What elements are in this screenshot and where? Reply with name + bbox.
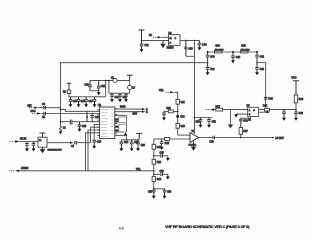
svg-text:R23: R23 bbox=[181, 126, 186, 128]
svg-text:9V: 9V bbox=[149, 35, 152, 37]
wire quad pin bbox=[115, 114, 127, 116]
IC left pin stubs bbox=[97, 110, 99, 136]
wire right rail bbox=[109, 92, 130, 94]
resistor R22 bbox=[168, 110, 173, 113]
ground bbox=[160, 147, 164, 150]
capacitor C11 middle leg bbox=[97, 80, 101, 92]
svg-text:AUDIO: AUDIO bbox=[21, 167, 28, 170]
wire IC bottom right bbox=[115, 135, 127, 140]
svg-text:C44: C44 bbox=[260, 69, 265, 71]
capacitor C26 bbox=[120, 140, 124, 148]
svg-text:C56: C56 bbox=[160, 153, 165, 155]
capacitor C16 bbox=[69, 97, 73, 104]
svg-text:R48: R48 bbox=[299, 99, 304, 101]
resistor R42 bbox=[241, 51, 249, 53]
net arrow bbox=[70, 142, 73, 144]
svg-text:C53: C53 bbox=[210, 142, 215, 144]
wire VCC rail top-right bbox=[208, 51, 257, 53]
svg-text:LM2904: LM2904 bbox=[189, 145, 197, 147]
svg-text:C42: C42 bbox=[236, 57, 241, 59]
net arrow bbox=[267, 111, 270, 113]
capacitor C57 bbox=[152, 189, 156, 196]
capacitor C15 bbox=[78, 122, 82, 129]
power flag VB bbox=[136, 134, 142, 140]
ground bbox=[140, 49, 144, 52]
wire plus to chain bbox=[154, 138, 165, 140]
ground bbox=[97, 92, 101, 95]
ground bbox=[199, 125, 203, 128]
svg-text:R22: R22 bbox=[167, 108, 172, 110]
resistor R47 bbox=[239, 128, 242, 135]
wire quad link bbox=[115, 115, 127, 132]
node bias tap bbox=[176, 115, 179, 118]
wire IF net out bbox=[115, 108, 142, 110]
power flag bbox=[40, 133, 46, 137]
power flag filter rail bbox=[67, 83, 71, 90]
ceramic filter FL1 bbox=[38, 137, 47, 147]
capacitor C22 bbox=[124, 93, 128, 99]
svg-text:DET: DET bbox=[133, 114, 138, 116]
svg-text:R42: R42 bbox=[242, 46, 247, 48]
IC right pin stubs bbox=[115, 109, 118, 133]
svg-text:R21: R21 bbox=[181, 102, 186, 104]
series capacitor C3 bbox=[75, 141, 77, 145]
capacitor C1 bbox=[25, 142, 29, 149]
capacitor C25 bbox=[92, 140, 96, 146]
pin element 3 bbox=[115, 126, 118, 128]
svg-text:R40: R40 bbox=[216, 46, 221, 48]
capacitor C33 bbox=[184, 40, 187, 56]
capacitor C34 bbox=[198, 40, 202, 47]
capacitor C18 bbox=[84, 97, 88, 104]
capacitor C51 bbox=[199, 118, 203, 125]
ground bbox=[234, 115, 238, 118]
node bbox=[185, 40, 186, 41]
crystal loop left leg capacitor C10 bbox=[88, 80, 92, 90]
inductor L6 bbox=[129, 80, 131, 93]
node bbox=[256, 62, 257, 63]
ground bbox=[93, 104, 97, 107]
svg-text:AF OUT: AF OUT bbox=[275, 137, 284, 140]
wire filter input bbox=[19, 141, 38, 143]
wire regulator output bbox=[180, 39, 199, 41]
inductor L5 bbox=[113, 78, 117, 82]
capacitor C2 bbox=[32, 142, 36, 149]
svg-text:C33: C33 bbox=[189, 48, 194, 50]
inductor L2 bbox=[60, 126, 62, 131]
svg-text:C18: C18 bbox=[81, 101, 86, 103]
capacitor C19 bbox=[93, 97, 97, 104]
wire IC pin routes down-left bbox=[94, 124, 99, 140]
capacitor C20 bbox=[110, 93, 114, 99]
regulator U2 78M05 bbox=[169, 35, 181, 46]
ground bbox=[294, 118, 298, 121]
pin element 1 bbox=[115, 118, 118, 120]
wire IC pin jog bbox=[61, 109, 100, 111]
node dot bbox=[141, 40, 142, 41]
power flag right bbox=[293, 81, 299, 95]
series capacitor C53 bbox=[213, 136, 215, 140]
net arrow bbox=[142, 111, 145, 113]
wire osc to rail bbox=[105, 80, 107, 96]
svg-text:C63: C63 bbox=[299, 113, 304, 115]
wire route to AF line 2 bbox=[86, 133, 100, 171]
wire route to AF line bbox=[88, 130, 100, 171]
resistor R21 bbox=[176, 99, 179, 104]
capacitor C45 bbox=[264, 98, 268, 100]
ground bbox=[124, 99, 128, 102]
ground bbox=[152, 196, 156, 199]
svg-text:C57: C57 bbox=[148, 192, 153, 194]
ground bbox=[92, 146, 96, 149]
capacitor C44 bbox=[255, 63, 259, 73]
svg-text:470 OHM: 470 OHM bbox=[215, 49, 224, 51]
wire dashed lead bbox=[10, 141, 15, 143]
wire cap row bbox=[121, 139, 139, 141]
net arrow left bbox=[15, 170, 19, 172]
ground under U2 input bbox=[161, 40, 165, 47]
svg-text:C10: C10 bbox=[85, 84, 90, 86]
IC U1 receiver bbox=[100, 107, 115, 139]
svg-text:C58: C58 bbox=[167, 192, 172, 194]
resistor R30 bbox=[152, 144, 155, 149]
net arrow bbox=[15, 140, 19, 142]
capacitor C41 bbox=[206, 63, 210, 73]
svg-text:C40: C40 bbox=[210, 56, 215, 58]
wire V+ rail bbox=[194, 117, 212, 119]
net arrow bbox=[142, 108, 145, 110]
svg-text:C41: C41 bbox=[210, 69, 215, 71]
wire chain bottom bbox=[154, 188, 165, 190]
ground bbox=[166, 158, 170, 161]
capacitor C31 bbox=[140, 40, 144, 49]
svg-text:CERAMIC FILT: CERAMIC FILT bbox=[48, 149, 63, 152]
net arrow up bbox=[124, 133, 128, 136]
wire osc to IC bbox=[108, 80, 110, 93]
ground bbox=[69, 104, 73, 107]
svg-text:C17: C17 bbox=[73, 101, 78, 103]
resistor R31 bbox=[152, 159, 155, 164]
wire tap branch 1 bbox=[154, 155, 161, 157]
capacitor C27 bbox=[130, 140, 134, 148]
svg-text:R46: R46 bbox=[263, 106, 268, 108]
ground bbox=[32, 149, 36, 152]
wire opamp output bbox=[199, 137, 274, 139]
svg-text:C34: C34 bbox=[202, 44, 207, 46]
svg-text:RX IN: RX IN bbox=[20, 139, 26, 141]
svg-text:R31: R31 bbox=[157, 162, 162, 164]
wire down to line bbox=[295, 103, 297, 110]
ground stub from wire bbox=[229, 110, 233, 128]
wire to U5 bbox=[214, 109, 248, 111]
wire dashed lead bbox=[9, 170, 15, 172]
node AF line bbox=[153, 170, 155, 172]
ground bbox=[78, 129, 82, 132]
ground bbox=[136, 148, 140, 151]
ground bbox=[118, 99, 122, 102]
wire filter output bbox=[47, 142, 70, 144]
pin element 2 bbox=[115, 121, 118, 123]
capacitor C17 bbox=[77, 97, 81, 104]
loop bottom wire bbox=[90, 90, 99, 92]
resistor R46 bbox=[264, 108, 269, 111]
wire regulator input bbox=[142, 39, 169, 41]
node bbox=[207, 62, 208, 63]
wire 5V vertical bbox=[193, 40, 195, 117]
ground bbox=[77, 104, 81, 107]
ground bbox=[59, 131, 63, 134]
wire with series capacitor C13 bbox=[61, 121, 100, 123]
svg-text:C60: C60 bbox=[243, 120, 248, 122]
resistor R23 bbox=[176, 123, 179, 128]
svg-text:R47: R47 bbox=[243, 131, 248, 133]
ground bbox=[162, 118, 166, 121]
svg-text:C68: C68 bbox=[180, 116, 185, 118]
IC U5 bbox=[248, 107, 259, 116]
capacitor C42 bbox=[231, 52, 235, 60]
wire tap branch 2 bbox=[154, 173, 161, 175]
resistor R9 bbox=[67, 90, 70, 94]
svg-text:C28: C28 bbox=[141, 145, 146, 147]
svg-text:SQL: SQL bbox=[159, 90, 164, 92]
resistor R5 vertical link bbox=[86, 111, 88, 121]
ground bbox=[120, 148, 124, 151]
ground bbox=[282, 118, 286, 121]
wire to output line bbox=[240, 134, 242, 137]
svg-text:VHF RF BOARD SCHEMATIC VER C (: VHF RF BOARD SCHEMATIC VER C (PAGE 6 OF … bbox=[165, 224, 250, 229]
wire U5 lower left pin bbox=[236, 113, 248, 115]
svg-text:470 OHM: 470 OHM bbox=[241, 49, 250, 51]
svg-text:C43: C43 bbox=[260, 56, 265, 58]
ground bbox=[25, 149, 29, 152]
svg-text:R25: R25 bbox=[165, 143, 170, 145]
wire branch bbox=[164, 110, 178, 112]
resistor R32 bbox=[152, 177, 155, 182]
capacitor C62 bbox=[282, 110, 286, 118]
svg-text:C59: C59 bbox=[160, 171, 165, 173]
wire to right branch bbox=[257, 63, 266, 108]
wire long supply line bbox=[61, 63, 208, 126]
capacitor C52 bbox=[207, 118, 211, 125]
ground bbox=[130, 148, 134, 151]
svg-text:VCC: VCC bbox=[292, 78, 297, 80]
quad coil block bbox=[119, 117, 127, 122]
svg-text:C21: C21 bbox=[115, 97, 120, 99]
capacitor C28 bbox=[136, 140, 140, 148]
wire to left rail bbox=[69, 94, 106, 97]
resistor R25 bbox=[165, 138, 170, 141]
capacitor C50 bbox=[162, 111, 166, 117]
capacitor C63 bbox=[294, 110, 298, 118]
power flag osc bbox=[127, 75, 133, 80]
svg-text:6-6: 6-6 bbox=[119, 226, 124, 230]
ground bbox=[166, 177, 170, 180]
capacitor C14 link bbox=[90, 114, 94, 122]
ground bbox=[198, 47, 202, 50]
wire U5 bottom pin chain bbox=[241, 117, 251, 120]
svg-text:C52: C52 bbox=[212, 122, 217, 124]
power flag +B regulator input bbox=[139, 30, 145, 40]
wire route to filter output bbox=[91, 127, 100, 143]
svg-text:R32: R32 bbox=[157, 179, 162, 181]
capacitor C60 bbox=[239, 119, 243, 127]
ground bbox=[163, 196, 167, 199]
wire AF long line bbox=[19, 170, 154, 172]
svg-text:C25: C25 bbox=[97, 142, 102, 144]
wire opamp minus input bbox=[178, 134, 190, 136]
wire osc top bbox=[90, 79, 130, 81]
wire opamp V+ bbox=[193, 118, 195, 135]
svg-text:C45: C45 bbox=[268, 99, 273, 101]
ground bbox=[84, 104, 88, 107]
wire jog to 5V rail bbox=[186, 55, 195, 57]
ground bbox=[41, 147, 45, 152]
resistor R48 bbox=[294, 95, 297, 103]
opamp ground bbox=[192, 141, 196, 150]
svg-text:R30: R30 bbox=[157, 147, 162, 149]
capacitor C58 bbox=[163, 189, 167, 196]
wire U5 lower right pin bbox=[259, 111, 267, 113]
svg-text:C22: C22 bbox=[123, 97, 128, 99]
svg-text:78M05: 78M05 bbox=[167, 47, 175, 49]
wire opamp plus input bbox=[170, 138, 190, 140]
wire detector chain bbox=[153, 139, 155, 190]
resistor R40 bbox=[215, 51, 223, 53]
node bbox=[240, 137, 242, 139]
capacitor C43 bbox=[255, 52, 259, 63]
svg-text:RSSI: RSSI bbox=[120, 107, 126, 109]
svg-text:C19: C19 bbox=[89, 101, 94, 103]
capacitor C55 bbox=[160, 139, 164, 147]
capacitor C21 bbox=[118, 93, 122, 99]
svg-text:OSC: OSC bbox=[31, 111, 36, 113]
capacitor C40 bbox=[206, 52, 210, 63]
pin element 4 bbox=[115, 129, 118, 131]
op-amp U6 bbox=[190, 133, 199, 143]
resistor R45 bbox=[216, 108, 223, 111]
svg-text:C51: C51 bbox=[196, 122, 201, 124]
ground bbox=[207, 125, 211, 128]
svg-text:C26: C26 bbox=[124, 142, 129, 144]
wire U5 right pin bbox=[259, 109, 297, 111]
ground bbox=[110, 99, 114, 102]
svg-text:C15: C15 bbox=[82, 126, 87, 128]
ground bbox=[206, 72, 210, 75]
node output bbox=[272, 137, 274, 139]
svg-text:C31: C31 bbox=[145, 45, 150, 47]
ground bbox=[231, 60, 235, 63]
wire DET net out bbox=[115, 111, 142, 113]
ground bbox=[255, 72, 259, 75]
